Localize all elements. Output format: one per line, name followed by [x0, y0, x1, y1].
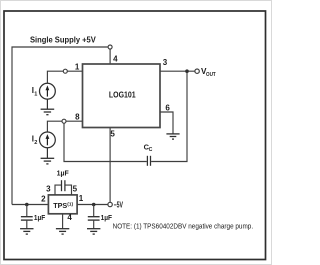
junction output node: [185, 69, 189, 73]
capacitor left 1uF: [21, 205, 33, 229]
terminal Vout open circle: [195, 69, 199, 73]
wire flying capacitor stubs: [55, 185, 72, 195]
label I2: [32, 135, 38, 147]
svg-text:NOTE: (1) TPS60402DBV negative: NOTE: (1) TPS60402DBV negative charge pu…: [113, 223, 254, 230]
capacitor right 1uF: [88, 205, 100, 229]
svg-text:TPS: TPS: [53, 201, 67, 210]
op-amp U1 LOG101: [83, 64, 161, 128]
svg-text:Single Supply +5V: Single Supply +5V: [30, 35, 97, 44]
svg-text:−5V: −5V: [114, 200, 124, 209]
ground below I1: [41, 99, 55, 115]
junction left 1uF cap: [25, 203, 29, 207]
svg-text:6: 6: [165, 103, 170, 112]
capacitor Cc: [147, 156, 150, 166]
svg-text:8: 8: [75, 112, 80, 121]
wire pin 5 drop to -5V: [109, 128, 111, 203]
svg-text:OUT: OUT: [206, 72, 216, 78]
svg-text:4: 4: [113, 54, 118, 63]
svg-text:LOG101: LOG101: [109, 89, 136, 99]
svg-text:C: C: [149, 147, 153, 153]
terminal +5V open circle: [108, 45, 112, 49]
ground below I2: [41, 148, 55, 164]
node input 2 open circle: [62, 119, 66, 123]
svg-text:1: 1: [75, 63, 80, 72]
charge pump U2 TPS60402: [48, 195, 77, 214]
svg-text:1µF: 1µF: [57, 169, 70, 178]
wire pin 6 to ground: [160, 112, 173, 134]
current source I2: [40, 132, 56, 148]
wire +5V rail (top horizontal and left vertical): [12, 47, 108, 205]
svg-text:5: 5: [110, 130, 115, 139]
wire pin 3 to Vout: [160, 70, 195, 72]
wire feedback from pin 8 node down and right to Cc: [64, 123, 147, 161]
node input 1 open circle: [63, 69, 67, 73]
wire -5V rail left segment: [12, 204, 48, 206]
svg-text:2: 2: [41, 195, 46, 204]
label Vout: [201, 67, 216, 78]
wire Cc to output node: [151, 71, 187, 161]
svg-text:1: 1: [34, 91, 37, 97]
ground below left cap: [20, 229, 33, 234]
ground at pin 6: [166, 134, 179, 139]
svg-text:3: 3: [46, 184, 51, 193]
wire pin 4 drop: [109, 49, 111, 64]
svg-text:2: 2: [34, 140, 37, 146]
label Cc: [144, 142, 153, 153]
svg-text:4: 4: [67, 213, 72, 222]
svg-text:1µF: 1µF: [34, 213, 46, 222]
ground at TPS pin 4: [56, 229, 69, 234]
ground below right cap: [87, 229, 100, 234]
label I1: [32, 86, 38, 98]
wire I1 to pin 1: [47, 71, 82, 83]
wire I2 to pin 8: [47, 121, 82, 132]
svg-text:(1): (1): [67, 202, 73, 207]
wire TPS pin 4 to ground: [62, 214, 64, 229]
svg-text:1µF: 1µF: [101, 213, 113, 222]
svg-text:5: 5: [73, 185, 78, 194]
junction right 1uF cap: [92, 203, 96, 207]
current source I1: [40, 83, 56, 99]
terminal -5V open circle: [108, 202, 112, 206]
svg-text:3: 3: [163, 58, 168, 67]
svg-text:1: 1: [79, 194, 84, 203]
wire -5V rail right segment: [77, 204, 108, 206]
capacitor flying 1uF: [62, 180, 65, 191]
